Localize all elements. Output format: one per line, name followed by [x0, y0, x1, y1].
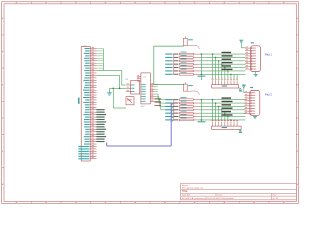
- net label pad1 row 5: [165, 67, 172, 68]
- net label texts on pad2 feed wires: [155, 98, 162, 106]
- resistor R11: [179, 104, 199, 107]
- resistor R2: [179, 52, 199, 55]
- svg-text:Date:: Date:: [218, 194, 223, 197]
- net label dark pad1 row 2: [174, 57, 179, 58]
- svg-text:Id: 1/1: Id: 1/1: [273, 198, 280, 200]
- net name texts pad2: [222, 97, 233, 115]
- wire row: [199, 73, 245, 75]
- net label pad2 row 6: [165, 116, 172, 117]
- wire row: [199, 102, 245, 104]
- wire row: [199, 119, 245, 121]
- resistor R4: [179, 58, 199, 61]
- ground below DB9 pad2: [253, 116, 257, 119]
- sheet outer border: [2, 2, 299, 204]
- vertical wire pad1 label rail: [173, 53, 175, 75]
- resistor R12: [179, 107, 199, 110]
- net label dark pad1 row 7: [174, 74, 179, 75]
- resistor R14: [179, 114, 199, 117]
- value text below rows pad2: [198, 121, 206, 122]
- net label pad1 row 1: [165, 54, 172, 55]
- power +5V top pad2: [242, 85, 246, 93]
- wire row: [199, 63, 245, 65]
- wire row: [199, 109, 245, 111]
- net label dark pad2 row 3: [174, 106, 179, 107]
- net label dark pad1 row 3: [174, 60, 179, 61]
- wire row: [199, 99, 245, 101]
- wire riser pad2: [201, 99, 202, 121]
- sheet inner border: [4, 4, 296, 202]
- wire row: [199, 70, 245, 72]
- net label dark pad2 row 4: [174, 109, 179, 110]
- net label dark pad2 row 6: [174, 116, 179, 117]
- resistor R6: [179, 65, 199, 68]
- resistor network RN1: [212, 79, 239, 88]
- ground below DB9 pad1: [254, 72, 258, 77]
- net label pad2 row 4: [165, 109, 172, 110]
- power +5V near RN pad1: [239, 88, 243, 92]
- border tick marks: [2, 2, 299, 204]
- wire riser pad1: [201, 53, 202, 80]
- power +5V top pad1: [239, 40, 245, 48]
- wire to crystal: [113, 88, 126, 108]
- IC U2: [126, 79, 140, 94]
- net label dark pad1 row 4: [174, 64, 179, 65]
- wire row: [199, 112, 245, 114]
- net label vertical near CN1: [78, 98, 80, 104]
- net label dark pad2 row 1: [174, 99, 179, 100]
- net label pad1 row 6: [165, 70, 172, 71]
- connector CN1 body: [81, 47, 90, 162]
- connector CN1 pins and pin names: [78, 47, 96, 159]
- svg-text:Size: A4: Size: A4: [182, 194, 190, 197]
- bus entries pad 2: [171, 103, 173, 122]
- pullup resistor R16 top pad2: [183, 82, 199, 95]
- wires U1 to pad 2 rows: [155, 84, 174, 109]
- wire stubs CN1 top pins to riser: [97, 49, 104, 71]
- pullup resistor R1 top pad1: [183, 37, 199, 50]
- net label pad1 row 4: [165, 64, 172, 65]
- net label dark pad1 row 5: [174, 67, 179, 68]
- wire row: [199, 60, 245, 62]
- net label pad2 row 1: [165, 99, 172, 100]
- svg-text:KiCad E.D.A. eeschema (2010-0: KiCad E.D.A. eeschema (2010-01-05 BZR 22…: [182, 197, 234, 200]
- wire +5V rail to pullups: [154, 46, 184, 85]
- net label pad1 row 7: [165, 74, 172, 75]
- wire grid verticals pad2: [212, 99, 237, 121]
- wire row: [199, 56, 245, 58]
- net label dark pad2 row 2: [174, 103, 179, 104]
- resistor R3: [179, 55, 199, 58]
- wire row: [199, 67, 245, 69]
- connector DB9 pad2: [244, 87, 259, 116]
- svg-text:Sheet: /: Sheet: /: [182, 184, 190, 187]
- wire row: [199, 105, 245, 107]
- wire CN1 to U2 pin 1: [97, 71, 126, 85]
- title block: [181, 183, 297, 200]
- resistor R10: [179, 101, 199, 104]
- resistor R9: [179, 97, 199, 100]
- IC U1: [137, 73, 155, 108]
- net label pad1 row 3: [165, 60, 172, 61]
- svg-text:Rev:: Rev:: [273, 195, 278, 197]
- power +5V near RN pad2: [239, 130, 243, 134]
- wire row: [199, 116, 245, 118]
- wire CN1 to U2 pin 2: [97, 75, 120, 88]
- wire row: [199, 53, 245, 55]
- net label dark pad2 row 5: [174, 113, 179, 114]
- crystal X1: [126, 97, 134, 105]
- net labels on CN1 lower pins: [96, 109, 106, 142]
- vertical wire pad2 label rail: [173, 99, 175, 121]
- resistor R8: [179, 72, 199, 75]
- wire feed pad2 pullup: [154, 84, 184, 86]
- value text below rows pad1: [198, 76, 206, 77]
- net label pad2 row 5: [165, 113, 172, 114]
- net name texts pad1: [222, 52, 233, 70]
- svg-text:Title:: Title:: [182, 190, 188, 193]
- wire grid verticals pad1: [212, 53, 237, 78]
- resistor network RN2: [212, 120, 241, 129]
- resistor R5: [179, 62, 199, 65]
- ground symbol near CN1: [107, 92, 112, 95]
- svg-text:Pad 1: Pad 1: [265, 53, 273, 57]
- bus from CN1 labels to pad 2 block: [107, 103, 172, 146]
- svg-text:Pad 2: Pad 2: [265, 93, 273, 97]
- net label dark pad2 row 7: [174, 119, 179, 120]
- net label dark pad1 row 1: [174, 54, 179, 55]
- net label pad2 row 2: [165, 103, 172, 104]
- wire ground net: [110, 88, 126, 93]
- resistor R13: [179, 111, 199, 114]
- net label pad1 row 2: [165, 57, 172, 58]
- net label pad2 row 7: [165, 119, 172, 120]
- net label dark pad1 row 6: [174, 70, 179, 71]
- net label pad2 row 3: [165, 106, 172, 107]
- resistor R15: [179, 117, 199, 120]
- connector DB9 pad1: [245, 42, 260, 71]
- resistor R7: [179, 69, 199, 72]
